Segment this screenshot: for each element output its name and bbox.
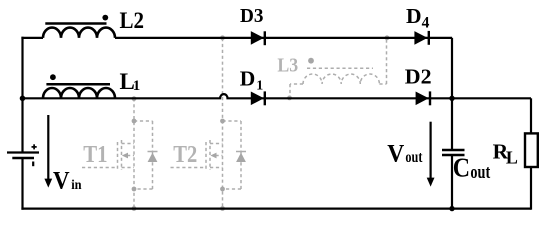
svg-text:V: V [53, 167, 70, 194]
svg-text:1: 1 [133, 78, 141, 94]
svg-text:4: 4 [422, 14, 430, 31]
svg-text:D: D [240, 66, 256, 90]
svg-text:V: V [387, 140, 404, 167]
svg-text:L3: L3 [277, 55, 298, 77]
svg-text:D3: D3 [240, 5, 264, 27]
svg-text:D2: D2 [405, 65, 432, 89]
svg-text:D: D [406, 4, 422, 28]
svg-text:in: in [71, 178, 82, 193]
svg-text:T2: T2 [173, 142, 197, 168]
svg-text:L2: L2 [120, 8, 145, 33]
svg-text:L: L [506, 147, 518, 167]
svg-text:out: out [470, 162, 490, 183]
svg-text:T1: T1 [83, 142, 107, 168]
svg-text:out: out [405, 149, 423, 166]
svg-text:C: C [453, 152, 470, 182]
svg-text:1: 1 [256, 79, 263, 94]
